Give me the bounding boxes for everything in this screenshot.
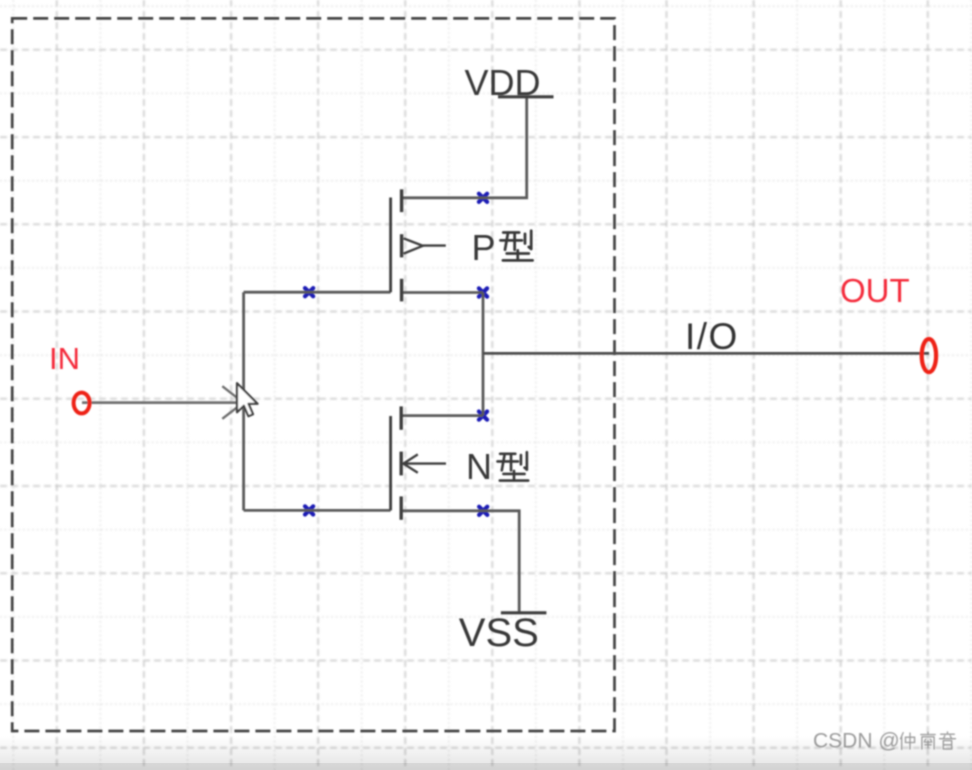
svg-text:IN: IN: [49, 341, 80, 376]
svg-text:OUT: OUT: [840, 272, 910, 309]
svg-text:N: N: [466, 446, 492, 487]
svg-text:P: P: [472, 227, 496, 268]
svg-text:VDD: VDD: [464, 62, 540, 103]
svg-text:I/O: I/O: [685, 316, 739, 357]
svg-text:VSS: VSS: [459, 611, 539, 655]
